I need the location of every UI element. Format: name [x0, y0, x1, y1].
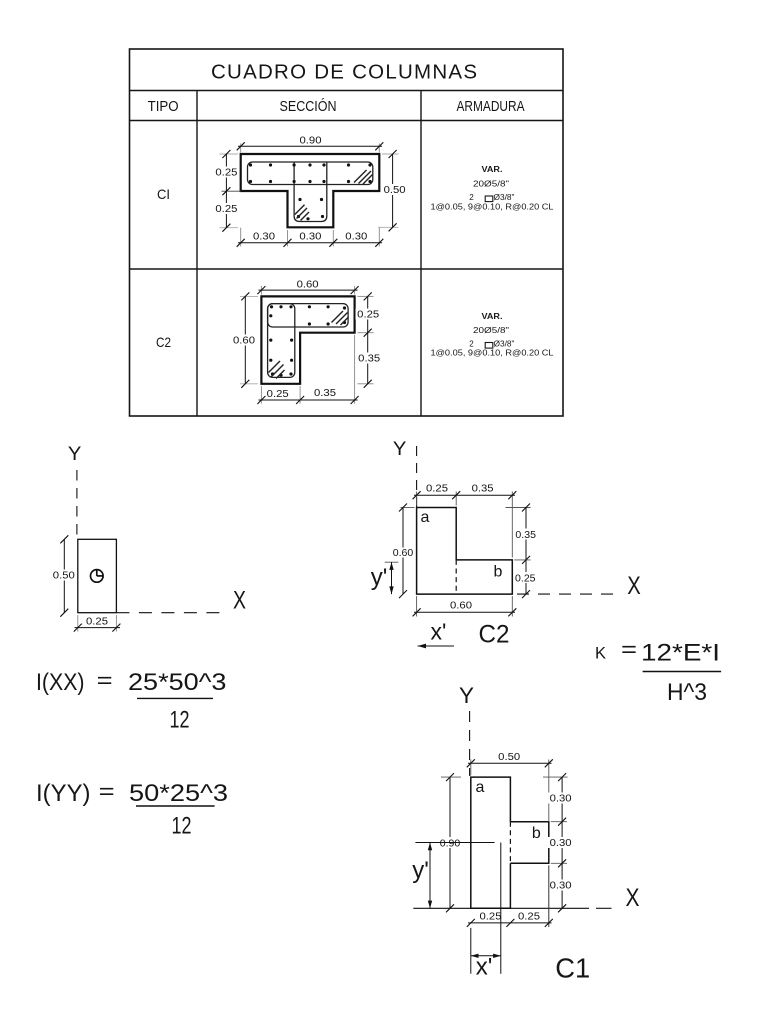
svg-text:a: a: [476, 779, 485, 796]
svg-text:VAR.: VAR.: [482, 165, 503, 174]
C2 dim text 0.25 bottom: [267, 389, 289, 400]
table title CUADRO DE COLUMNAS: [211, 61, 477, 84]
table outer border: [130, 49, 564, 416]
C1 diagram left 0.90 dim line: [449, 777, 451, 908]
C2 left stirrup: [268, 304, 295, 378]
svg-text:y': y': [371, 564, 388, 591]
formula Iyy fraction line: [136, 805, 215, 807]
svg-text:H^3: H^3: [667, 679, 707, 706]
left diagram bottom dim line: [75, 627, 121, 629]
svg-text:=: =: [97, 668, 113, 693]
C1 diagram label b: [532, 825, 541, 842]
svg-text:I(YY): I(YY): [36, 780, 91, 807]
C1 armadura text VAR.: [482, 165, 503, 174]
C2 bottom dim ticks: [257, 396, 358, 404]
C1 flange hatch lines: [354, 170, 373, 184]
C1 diagram dim text 0.25 right: [518, 912, 540, 923]
svg-text:C1: C1: [555, 952, 590, 983]
svg-text:0.35: 0.35: [314, 388, 336, 399]
svg-text:x': x': [431, 619, 447, 645]
C2 right dim line: [367, 296, 369, 383]
svg-text:CI: CI: [157, 186, 170, 202]
C1 diagram right dim line: [561, 777, 563, 908]
C2 diagram left dim extension lines: [401, 507, 415, 509]
svg-text:X: X: [233, 587, 246, 615]
formula Ixx denominator 12: [170, 707, 190, 734]
svg-text:0.25: 0.25: [357, 310, 379, 321]
C1 diagram top dim ticks: [467, 759, 553, 767]
C2 diagram x' underline with ticks: [418, 644, 454, 649]
left diagram X axis label: [233, 587, 246, 615]
C2 dim text 0.35 right: [357, 353, 383, 365]
left diagram Y axis dashed line: [76, 470, 78, 539]
C1 diagram bottom dim extension lines: [548, 865, 550, 927]
svg-text:C2: C2: [156, 334, 171, 350]
svg-text:0.50: 0.50: [53, 571, 75, 582]
svg-text:CUADRO DE COLUMNAS: CUADRO DE COLUMNAS: [211, 61, 477, 84]
C2 diagram left dim line: [402, 508, 404, 595]
C2 diagram dim text 0.25 top: [426, 484, 448, 495]
C2 armadura text VAR.: [482, 312, 503, 321]
svg-text:12: 12: [172, 813, 192, 840]
svg-text:25*50^3: 25*50^3: [128, 669, 227, 696]
svg-text:0.60: 0.60: [393, 548, 414, 559]
svg-text:TIPO: TIPO: [148, 98, 179, 115]
svg-text:20Ø5/8": 20Ø5/8": [473, 326, 509, 335]
C2 right dim ticks: [364, 292, 372, 387]
formula Iyy numerator: [36, 779, 228, 807]
svg-text:0.25: 0.25: [480, 912, 502, 923]
C2 dim 0.60 top ticks: [257, 286, 358, 294]
C1 diagram bottom dim line: [468, 922, 552, 924]
C1 diagram dim text 0.30 middle: [548, 837, 573, 849]
svg-text:0.25: 0.25: [267, 389, 289, 400]
left diagram Y axis label: [68, 444, 82, 465]
C1 concrete T outline: [241, 154, 380, 227]
C2 dim 0.60 top extension lines: [261, 286, 354, 295]
C2 rebar dots top row: [270, 305, 346, 309]
C2 diagram top dim line: [414, 494, 515, 496]
svg-text:Y: Y: [68, 444, 82, 465]
C2 armadura text spacing: [431, 349, 555, 358]
C1 dim 0.90 line: [238, 145, 382, 147]
C1 diagram top dim line: [468, 762, 552, 764]
svg-text:I(XX): I(XX): [36, 669, 85, 696]
C1 dim 0.90 extension lines: [241, 144, 380, 153]
table subheader divider line: [130, 120, 564, 122]
C1 dim text 0.50: [382, 184, 407, 196]
svg-text:12*E*I: 12*E*I: [641, 640, 720, 667]
cell label C1: [157, 186, 170, 202]
C1 dim text 0.90: [300, 136, 322, 147]
svg-text:0.35: 0.35: [472, 484, 494, 495]
C1 diagram dim text 0.30 lower: [548, 880, 573, 892]
C2 diagram internal dashed divider: [455, 560, 457, 594]
svg-text:0.50: 0.50: [384, 185, 406, 196]
svg-text:Y: Y: [393, 439, 407, 460]
svg-text:VAR.: VAR.: [482, 312, 503, 321]
C2 diagram label b: [494, 564, 503, 581]
svg-text:0.35: 0.35: [358, 354, 380, 365]
C1 diagram left 0.90 dim ticks: [446, 773, 454, 912]
svg-text:0.90: 0.90: [440, 838, 461, 849]
C2 diagram y' label: [371, 564, 388, 591]
C1 armadura text spacing: [431, 203, 555, 212]
C2 bottom dim extension lines: [261, 335, 354, 404]
svg-text:b: b: [532, 825, 541, 842]
C2 diagram top dim extension lines: [417, 492, 513, 558]
C2 diagram right dim ticks: [522, 504, 530, 599]
C1 diagram dim text 0.30 upper: [548, 793, 573, 805]
svg-text:0.25: 0.25: [86, 616, 108, 627]
C1 right dim extension lines: [378, 154, 399, 227]
C2 diagram X axis label: [627, 572, 641, 600]
C1 diagram x' dim arrows: [471, 954, 501, 958]
C2 diagram right dim line: [525, 508, 527, 595]
svg-text:0.30: 0.30: [550, 838, 572, 849]
left diagram X axis dashed line: [116, 612, 222, 614]
formula Ixx numerator: [36, 668, 227, 696]
C1 diagram y' label: [412, 857, 429, 884]
svg-text:=: =: [99, 779, 115, 804]
C2 diagram dim text 0.35 top: [472, 484, 494, 495]
C1 left dim ticks: [222, 150, 230, 232]
C1 flange stirrup: [248, 162, 373, 185]
C2 left dim extension lines: [240, 296, 258, 383]
svg-text:20Ø5/8": 20Ø5/8": [473, 180, 509, 189]
C2 diagram dim text 0.60 left: [392, 548, 415, 560]
header ARMADURA: [457, 98, 525, 115]
C2 rebar dots bottom: [271, 372, 293, 376]
C2 right dim extension top: [358, 296, 374, 383]
table column divider TIPO/SECCION: [196, 91, 198, 417]
C1 rebar dots top row: [249, 163, 372, 166]
C1 bottom dim ticks: [237, 239, 384, 247]
table header divider line: [130, 90, 564, 92]
C2 diagram top dim ticks: [413, 491, 517, 499]
formula K fraction line: [643, 671, 722, 673]
C1 dim text 0.30 right: [345, 232, 367, 243]
C2 diagram dim text 0.60 bottom: [450, 601, 472, 612]
svg-text:0.25: 0.25: [215, 168, 237, 179]
C1 diagram right dim ticks: [558, 773, 566, 912]
formula Ixx fraction line: [137, 697, 213, 699]
C2 diagram bottom dim extension lines: [417, 596, 513, 617]
C2 dim 0.60 top line: [259, 289, 358, 291]
C1 armadura text 2 stirrup Ø3/8: [469, 193, 514, 202]
left diagram dim 0.50 line: [63, 539, 65, 612]
C1 armadura text 2Ø5/8: [473, 180, 509, 189]
C1 dim 0.90 ticks: [237, 142, 384, 150]
svg-text:y': y': [412, 857, 429, 884]
C2 diagram shape outline: [417, 508, 513, 595]
left diagram rectangle 0.25x0.50: [78, 539, 117, 612]
left diagram bottom dim ticks: [74, 624, 121, 632]
svg-text:1@0.05, 9@0.10, R@0.20 CL: 1@0.05, 9@0.10, R@0.20 CL: [431, 203, 555, 212]
C1 diagram C1 label: [555, 952, 590, 983]
C2 left dim ticks: [241, 292, 249, 387]
C1 diagram x' label: [476, 954, 493, 981]
C1 stem stirrup: [294, 163, 327, 222]
C1 diagram centroid vertical line: [500, 843, 502, 974]
C1 diagram dim text 0.25 left: [480, 912, 502, 923]
svg-text:0.25: 0.25: [518, 912, 540, 923]
C2 diagram dim text 0.35 right: [514, 529, 538, 542]
C2 diagram y' dim arrows: [389, 562, 393, 594]
C1 diagram rect a outline: [471, 777, 511, 908]
C1 diagram internal dashed divider: [509, 822, 511, 864]
svg-text:=: =: [621, 637, 637, 662]
C1 diagram right dim extension lines: [441, 777, 568, 863]
C1 bottom dim extension lines: [241, 228, 380, 247]
svg-text:0.60: 0.60: [233, 336, 255, 347]
svg-text:ARMADURA: ARMADURA: [457, 98, 525, 115]
C1 diagram y' dim line: [429, 843, 431, 909]
svg-text:x': x': [476, 954, 493, 981]
svg-text:0.30: 0.30: [299, 232, 321, 243]
C1 diagram top dim extension lines: [471, 760, 549, 822]
C2 diagram y' dim line: [391, 562, 393, 594]
C1 diagram X axis line: [413, 907, 611, 909]
C2 diagram Y axis dashed line: [416, 446, 418, 507]
svg-text:Ø3/8": Ø3/8": [494, 340, 515, 349]
C1 diagram Y axis dashed line: [469, 711, 471, 776]
C1 dim text 0.30 left: [253, 232, 275, 243]
C2 diagram y' dim extension: [385, 561, 399, 563]
svg-text:Ø3/8": Ø3/8": [494, 193, 515, 202]
svg-text:0.60: 0.60: [297, 279, 319, 290]
header TIPO: [148, 98, 179, 115]
svg-text:Y: Y: [459, 683, 474, 708]
C2 top stirrup: [268, 304, 349, 327]
C2 dim text 0.60 top: [297, 279, 319, 290]
C2 diagram x' label: [431, 619, 447, 645]
C1 left dim line: [225, 154, 227, 228]
C2 rebar dots left stirrup: [269, 314, 293, 362]
C1 left dim extension lines: [220, 154, 239, 228]
C2 bottom dim line: [259, 399, 358, 401]
svg-text:0.30: 0.30: [345, 232, 367, 243]
C2 dim text 0.25 right: [356, 309, 382, 321]
C2 concrete L outline: [261, 296, 354, 383]
svg-text:C2: C2: [479, 621, 510, 649]
C1 diagram y' dim arrows: [428, 843, 432, 909]
svg-text:0.35: 0.35: [515, 530, 536, 541]
header SECCION: [280, 98, 337, 115]
C1 dim text 0.30 middle: [299, 232, 321, 243]
C1 diagram dim text 0.90: [440, 838, 461, 849]
svg-text:0.25: 0.25: [215, 204, 237, 215]
C2 armadura text 2 stirrup Ø3/8: [469, 340, 514, 349]
C1 diagram Y axis label: [459, 683, 474, 708]
left diagram bottom dim extension lines: [78, 615, 117, 632]
C2 diagram X axis dashed line: [517, 593, 618, 595]
svg-text:SECCIÓN: SECCIÓN: [280, 98, 337, 115]
C2 diagram Y axis label: [393, 439, 407, 460]
C1 diagram centroid horizontal line: [415, 842, 494, 844]
svg-text:b: b: [494, 564, 503, 581]
C2 diagram bottom dim ticks: [413, 608, 517, 616]
C2 armadura text 2Ø5/8: [473, 326, 509, 335]
svg-text:X: X: [626, 884, 640, 912]
svg-text:0.30: 0.30: [550, 794, 572, 805]
C2 dim text 0.60 left: [232, 335, 258, 347]
svg-text:0.30: 0.30: [550, 881, 572, 892]
svg-text:2: 2: [469, 193, 474, 202]
svg-text:2: 2: [469, 340, 474, 349]
formula K denominator H^3: [667, 679, 707, 706]
formula Iyy denominator 12: [172, 813, 192, 840]
C2 left dim line: [244, 296, 246, 383]
C2 diagram bottom dim line: [414, 611, 515, 613]
C1 dim text 0.25 lower: [214, 203, 239, 215]
C2 rebar dots top stirrup bottom: [308, 321, 346, 326]
C2 diagram C2 label: [479, 621, 510, 649]
C2 leg hatch lines: [269, 361, 285, 379]
table row divider line: [130, 268, 564, 270]
svg-text:K: K: [595, 644, 607, 663]
svg-text:0.50: 0.50: [498, 752, 520, 763]
svg-text:0.90: 0.90: [300, 136, 322, 147]
C1 diagram x' dim line: [471, 955, 501, 957]
formula K lhs: [595, 637, 637, 663]
svg-text:0.30: 0.30: [253, 232, 275, 243]
C2 dim text 0.35 bottom: [314, 388, 336, 399]
table column divider SECCION/ARMADURA: [420, 91, 422, 417]
C1 stem hatch lines: [295, 205, 309, 221]
svg-text:0.25: 0.25: [515, 574, 536, 585]
C1 rebar dots bottom row: [249, 180, 372, 183]
C1 diagram bottom dim ticks: [467, 919, 553, 927]
svg-text:50*25^3: 50*25^3: [129, 780, 228, 807]
left diagram dim text 0.25: [86, 616, 108, 627]
C1 diagram X axis label: [626, 884, 640, 912]
left diagram dim text 0.50: [51, 570, 77, 582]
C1 diagram x' left extension line: [470, 928, 472, 974]
C1 rebar dots stem: [297, 198, 324, 221]
cell label C2: [156, 334, 171, 350]
C2 diagram dim text 0.25 right: [514, 572, 538, 585]
C2 flange hatch lines: [332, 311, 349, 325]
svg-text:1@0.05, 9@0.10, R@0.20 CL: 1@0.05, 9@0.10, R@0.20 CL: [431, 349, 555, 358]
C2 diagram left dim ticks: [399, 504, 407, 599]
C2 diagram label a: [421, 509, 430, 526]
C1 right dim ticks: [389, 150, 397, 231]
C1 diagram dim text 0.50: [498, 752, 520, 763]
svg-text:12: 12: [170, 707, 190, 734]
svg-text:a: a: [421, 509, 430, 526]
C1 left dim middle extension: [222, 190, 242, 192]
C1 diagram rect b outline: [510, 822, 548, 864]
C1 diagram label a: [476, 779, 485, 796]
svg-text:0.25: 0.25: [426, 484, 448, 495]
left diagram centroid symbol: [91, 570, 104, 583]
C2 diagram right dim extension lines: [506, 508, 531, 560]
C1 bottom dim line: [238, 242, 382, 244]
svg-text:0.60: 0.60: [450, 601, 472, 612]
svg-text:X: X: [627, 572, 641, 600]
left diagram dim 0.50 ticks: [60, 535, 68, 616]
C1 right dim line: [392, 154, 394, 227]
C1 dim text 0.25 upper: [214, 167, 239, 179]
formula K numerator 12*E*I: [641, 640, 720, 667]
